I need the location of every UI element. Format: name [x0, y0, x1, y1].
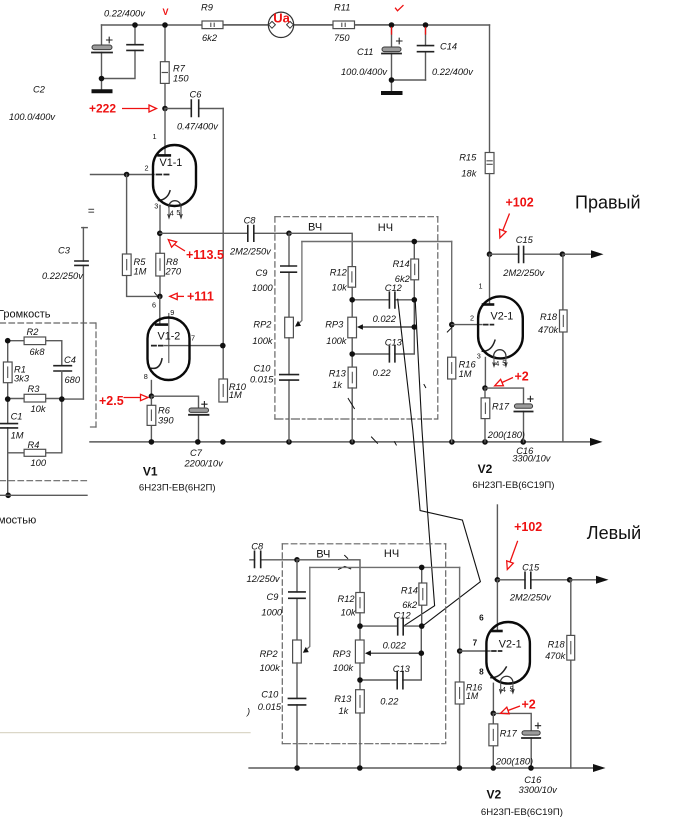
svg-text:C12: C12 [394, 610, 412, 620]
svg-text:C14: C14 [440, 42, 457, 52]
capacitor C9 [281, 233, 297, 317]
wire output arrow left [570, 579, 596, 581]
svg-text:+222: +222 [89, 102, 116, 116]
svg-text:1000: 1000 [261, 607, 283, 617]
red arrow +222 [122, 108, 149, 110]
svg-text:2200/10v: 2200/10v [184, 459, 225, 469]
capacitor C12 [352, 292, 414, 308]
junction C11/rail [389, 22, 395, 28]
junction R3/C4 [59, 396, 65, 402]
node output right [560, 251, 566, 257]
junction C2 bottom [99, 76, 105, 82]
wire B+ rail drop to R15 [489, 25, 491, 153]
wire B+ top rail [102, 24, 490, 26]
red arrow +2 top [502, 378, 513, 383]
svg-text:C7: C7 [190, 448, 203, 458]
resistor R18 [560, 254, 568, 441]
svg-text:RP2: RP2 [253, 320, 272, 330]
faint erased rail line [0, 732, 250, 734]
resistor R12 left [356, 593, 365, 641]
node V2 grid [449, 322, 455, 328]
svg-text:C10: C10 [253, 364, 271, 374]
resistor R15 [485, 153, 494, 255]
svg-text:6k8: 6k8 [30, 347, 46, 357]
wire NCh bus left [310, 566, 460, 568]
svg-text:R7: R7 [173, 64, 186, 74]
svg-text:3300/10v: 3300/10v [512, 454, 552, 464]
junction bottom wire [5, 493, 11, 499]
resistor R17 [481, 388, 490, 442]
wire V2-1 grid wire left [460, 650, 490, 652]
svg-text:7: 7 [473, 639, 478, 648]
svg-text:+2.5: +2.5 [99, 394, 124, 408]
node +222 [162, 106, 168, 112]
resistor R12 [348, 267, 356, 318]
svg-text:НЧ: НЧ [384, 548, 399, 560]
svg-text:1M: 1M [459, 369, 472, 379]
svg-text:2M2/250v: 2M2/250v [229, 246, 272, 256]
svg-text:RP2: RP2 [260, 649, 279, 659]
junction R10/ground rail [220, 439, 226, 445]
svg-text:6Н23П-ЕВ(6С19П): 6Н23П-ЕВ(6С19П) [481, 807, 563, 818]
resistor R3 [8, 394, 84, 402]
svg-text:1k: 1k [332, 380, 343, 390]
svg-text:R18: R18 [548, 640, 566, 650]
svg-text:0.47/400v: 0.47/400v [177, 122, 219, 132]
svg-text:C4: C4 [64, 355, 76, 365]
svg-text:4: 4 [502, 685, 506, 694]
freehand link line L2 [404, 302, 435, 626]
junction C16/ground rail [520, 439, 526, 445]
resistor R5 [122, 175, 160, 297]
capacitor C7 electrolytic [151, 396, 208, 442]
svg-text:Громкость: Громкость [0, 308, 51, 320]
svg-text:+111: +111 [187, 289, 214, 303]
svg-text:10k: 10k [341, 607, 357, 617]
red arrow +102 bottom [510, 541, 518, 562]
resistor R14 left [419, 567, 427, 626]
svg-text:R17: R17 [500, 728, 518, 738]
svg-text:200(180): 200(180) [487, 430, 525, 440]
svg-text:5: 5 [176, 208, 180, 217]
svg-text:C8: C8 [251, 542, 264, 552]
svg-text:+102: +102 [514, 520, 542, 534]
capacitor C15 left [497, 572, 569, 588]
svg-text:5: 5 [502, 359, 506, 368]
svg-text:V2-1: V2-1 [499, 639, 522, 651]
junction R16/ground rail [449, 439, 455, 445]
svg-text:4: 4 [170, 209, 174, 218]
svg-text:6Н23П-ЕВ(6Н2П): 6Н23П-ЕВ(6Н2П) [139, 483, 216, 494]
capacitor C10 left [288, 663, 305, 768]
wire volume network left column [7, 341, 9, 496]
svg-text:2: 2 [470, 314, 474, 323]
svg-text:ВЧ: ВЧ [308, 222, 322, 234]
svg-text:0.22: 0.22 [373, 368, 392, 378]
svg-text:6: 6 [479, 613, 484, 622]
potentiometer RP2 [285, 317, 294, 338]
svg-text:3: 3 [154, 201, 158, 210]
break marks [89, 209, 94, 212]
resistor R10 [219, 379, 228, 402]
capacitor C11 electrolytic [382, 25, 426, 91]
node +102 left [495, 577, 501, 583]
junction C10/rail left [294, 765, 300, 771]
junction R7/rail [162, 22, 168, 28]
junction R12/C12 [349, 297, 355, 303]
svg-text:V: V [163, 7, 169, 17]
svg-text:10k: 10k [332, 282, 348, 292]
svg-text:2M2/250v: 2M2/250v [502, 268, 545, 278]
wire V1-1 anode lead [164, 109, 166, 156]
svg-text:R12: R12 [330, 268, 348, 278]
wire B+ stub left channel [496, 505, 498, 580]
potentiometer RP3 left [355, 640, 364, 690]
svg-text:C11: C11 [357, 47, 373, 57]
svg-text:R12: R12 [338, 594, 356, 604]
ground below C11 [383, 91, 401, 95]
svg-text:0.015: 0.015 [250, 374, 274, 384]
svg-text:470k: 470k [545, 651, 567, 661]
svg-text:C15: C15 [516, 235, 534, 245]
wire VCh feed [289, 233, 352, 266]
junction C16/rail left [528, 765, 534, 771]
svg-text:V2-1: V2-1 [491, 311, 514, 323]
junction C11/C14 bottom [389, 77, 395, 83]
svg-text:C6: C6 [190, 90, 203, 100]
svg-text:10k: 10k [31, 404, 47, 414]
resistor R13 [348, 367, 356, 442]
ground below C2 [94, 89, 111, 93]
svg-text:0.22: 0.22 [380, 696, 399, 706]
junction R17/rail left [491, 765, 497, 771]
svg-text:+2: +2 [522, 697, 536, 711]
node V2 cathode [482, 385, 488, 391]
svg-text:2M2/250v: 2M2/250v [509, 593, 552, 603]
capacitor C2 electrolytic [92, 37, 112, 52]
wire V2-1 grid wire [452, 324, 482, 326]
svg-text:C3: C3 [58, 246, 71, 256]
resistor R8 [156, 233, 165, 296]
svg-text:R13: R13 [329, 368, 347, 378]
red arrow +2.5 [124, 397, 141, 399]
svg-text:1M: 1M [229, 390, 242, 400]
capacitor C13 [352, 300, 414, 362]
capacitor C12 left [360, 618, 422, 635]
red arrow +113.5 [175, 245, 186, 252]
resistor R17 left [489, 713, 498, 768]
svg-text:+2: +2 [515, 369, 529, 383]
svg-text:C16: C16 [524, 775, 542, 785]
svg-text:R9: R9 [201, 2, 213, 12]
capacitor C3 [75, 228, 88, 400]
svg-text:мостью: мостью [0, 515, 36, 527]
svg-text:5: 5 [510, 684, 514, 693]
capacitor C13 left [360, 626, 421, 689]
freehand ticks [155, 293, 452, 570]
wire ground rail left section [249, 767, 593, 769]
svg-text:Ua: Ua [273, 11, 290, 26]
capacitor C16 electrolytic left [493, 713, 540, 768]
junction C14/rail [423, 22, 429, 28]
node V2 grid left [457, 648, 463, 654]
node +111 [157, 294, 163, 300]
svg-text:R14: R14 [401, 586, 418, 596]
wire C6 to R10 column [222, 109, 224, 380]
svg-text:100k: 100k [260, 663, 282, 673]
node C9 top [286, 231, 292, 237]
svg-text:R4: R4 [28, 440, 40, 450]
svg-text:1: 1 [153, 132, 157, 141]
rail output arrow left [593, 764, 606, 772]
svg-text:18k: 18k [461, 169, 477, 179]
svg-text:100: 100 [31, 458, 47, 468]
potentiometer RP3 [348, 317, 357, 367]
capacitor C14 [418, 25, 434, 80]
wire RP2 wiper feed left [305, 567, 310, 650]
svg-text:6Н23П-ЕВ(6С19П): 6Н23П-ЕВ(6С19П) [472, 480, 554, 491]
svg-text:V1: V1 [143, 465, 158, 479]
svg-text:R14: R14 [393, 259, 410, 269]
svg-text:1: 1 [479, 282, 483, 291]
svg-text:1M: 1M [11, 431, 24, 441]
svg-text:4: 4 [495, 359, 499, 368]
svg-text:750: 750 [334, 33, 350, 43]
junction R1/R3 [5, 396, 11, 402]
junction C10/ground rail [286, 439, 292, 445]
svg-text:3k3: 3k3 [14, 374, 30, 384]
svg-text:0.22/250v: 0.22/250v [42, 271, 84, 281]
svg-text:ВЧ: ВЧ [316, 549, 330, 561]
svg-text:8: 8 [479, 668, 484, 677]
svg-text:470k: 470k [538, 325, 560, 335]
svg-text:C12: C12 [385, 283, 403, 293]
svg-text:R15: R15 [459, 153, 477, 163]
svg-text:+102: +102 [506, 195, 534, 209]
capacitor C8 left [250, 551, 297, 567]
capacitor C16 electrolytic [485, 388, 533, 442]
svg-text:C10: C10 [261, 690, 279, 700]
tone box right channel dashed [275, 217, 438, 419]
node +102 [487, 251, 493, 257]
capacitor 0.22/400v top-left [127, 45, 143, 51]
svg-text:1000: 1000 [252, 283, 274, 293]
node output left [567, 577, 573, 583]
svg-text:RP3: RP3 [325, 320, 344, 330]
node V2 cathode left [491, 711, 497, 717]
svg-text:R17: R17 [492, 402, 510, 412]
junction R13/rail left [357, 765, 363, 771]
svg-text:3300/10v: 3300/10v [519, 785, 559, 795]
svg-text:R11: R11 [334, 2, 350, 12]
svg-text:100k: 100k [326, 336, 348, 346]
junction R17/ground rail [482, 439, 488, 445]
resistor R6 [147, 396, 156, 442]
junction RP3/C13 [349, 351, 355, 357]
svg-text:7: 7 [191, 334, 195, 343]
wire stub bottom-left [0, 494, 87, 496]
svg-text:0.22/400v: 0.22/400v [104, 9, 146, 19]
svg-text:R16: R16 [459, 359, 477, 369]
junction R13/ground rail [349, 439, 355, 445]
svg-text:+113.5: +113.5 [186, 248, 224, 262]
tone box left channel dashed [282, 544, 445, 744]
junction 0.22cap/rail [132, 22, 138, 28]
wire V2-1 anode lead [489, 254, 491, 304]
wire V2-1 anode lead left [496, 580, 498, 631]
node C9 top left [294, 557, 300, 563]
svg-text:C13: C13 [393, 664, 411, 674]
svg-text:1M: 1M [134, 266, 147, 276]
svg-text:0.015: 0.015 [258, 702, 282, 712]
svg-text:R18: R18 [540, 312, 558, 322]
wire V2 grid feed left [459, 567, 461, 768]
svg-text:6: 6 [152, 300, 156, 309]
freehand link line L1 [398, 299, 481, 626]
svg-text:Правый: Правый [575, 193, 641, 213]
resistor R18 left [567, 580, 575, 768]
wire V1-2 anode lead [159, 296, 161, 324]
svg-text:V2: V2 [478, 462, 493, 476]
svg-text:390: 390 [158, 415, 174, 425]
svg-text:R13: R13 [334, 694, 352, 704]
svg-text:C1: C1 [11, 412, 23, 422]
resistor R7 [160, 25, 169, 109]
svg-text:C13: C13 [385, 337, 403, 347]
capacitor C15 [490, 246, 563, 262]
node V1-2 cathode [149, 393, 155, 399]
svg-text:C15: C15 [522, 563, 540, 573]
svg-text:V1-2: V1-2 [158, 330, 181, 342]
junction C7/ground rail [195, 439, 201, 445]
svg-text:100.0/400v: 100.0/400v [341, 67, 388, 77]
resistor R14 [411, 242, 419, 300]
resistor R1 [3, 362, 12, 383]
svg-text:9: 9 [170, 308, 174, 317]
svg-text:R6: R6 [158, 405, 171, 415]
svg-text:150: 150 [173, 74, 189, 84]
wire V1-1 grid wire [91, 174, 155, 176]
volume control dashed box [0, 323, 96, 481]
junction R14/C12 left [419, 623, 425, 629]
capacitor C10 [280, 338, 299, 442]
svg-text:0.022: 0.022 [383, 640, 407, 650]
red probe marks on rail [392, 6, 426, 35]
triode V2-1 right [478, 296, 523, 388]
wire VCh feed left [297, 560, 360, 593]
svg-text:0.22/400v: 0.22/400v [432, 67, 474, 77]
wire RP2 wiper feed [297, 242, 302, 325]
capacitor C4 [54, 366, 71, 399]
junction R6/ground rail [149, 439, 155, 445]
capacitor C6 [165, 100, 223, 117]
wire V2 grid feed [451, 242, 453, 442]
junction R14 top [412, 239, 418, 245]
svg-text:C9: C9 [256, 268, 268, 278]
svg-text:V1-1: V1-1 [160, 157, 183, 169]
red arrow +2 bottom [508, 706, 520, 711]
svg-text:C9: C9 [267, 592, 279, 602]
junction RP3 wiper node left [419, 650, 425, 656]
svg-text:3: 3 [477, 351, 481, 360]
resistor R9 [202, 21, 268, 29]
triode V1-2 [148, 314, 223, 397]
svg-text:RP3: RP3 [333, 649, 352, 659]
node V1-2 grid [220, 343, 226, 349]
potentiometer RP2 left [293, 640, 302, 663]
svg-text:270: 270 [165, 267, 182, 277]
node grid/R5 [124, 172, 130, 178]
capacitor C8 [160, 226, 289, 242]
svg-text:V2: V2 [487, 788, 502, 802]
resistor R16 [448, 357, 456, 379]
resistor R2 [8, 337, 62, 366]
wire RP3 wiper [361, 326, 414, 328]
red arrow +111 [177, 295, 184, 297]
resistor R4 [8, 399, 62, 456]
junction R16/rail left [457, 765, 463, 771]
junction R14/C12 [412, 297, 418, 303]
svg-text:R3: R3 [28, 384, 41, 394]
lamp/meter Ua [268, 12, 333, 37]
svg-text:1M: 1M [466, 691, 479, 701]
wire C2 branch [102, 25, 136, 89]
wire ground rail right section [90, 441, 591, 443]
svg-text:6k2: 6k2 [202, 33, 218, 43]
svg-text:R8: R8 [166, 257, 179, 267]
svg-text:НЧ: НЧ [378, 222, 393, 234]
svg-text:200(180): 200(180) [495, 757, 533, 767]
wire output arrow [562, 253, 591, 255]
svg-text:R2: R2 [27, 327, 40, 337]
svg-text:): ) [246, 707, 250, 717]
svg-text:100k: 100k [252, 336, 274, 346]
capacitor C9 left [289, 560, 305, 640]
svg-text:100.0/400v: 100.0/400v [9, 112, 56, 122]
junction R2/R1 [5, 338, 11, 344]
svg-text:2: 2 [145, 163, 149, 172]
svg-text:C2: C2 [33, 85, 46, 95]
svg-text:12/250v: 12/250v [247, 574, 281, 584]
svg-text:100k: 100k [333, 663, 355, 673]
wire RP3 wiper left [369, 652, 421, 654]
svg-text:1k: 1k [339, 706, 350, 716]
svg-text:C8: C8 [244, 215, 257, 225]
svg-text:Левый: Левый [587, 523, 641, 543]
svg-text:680: 680 [65, 375, 81, 385]
node V1-1 cathode [157, 231, 163, 237]
triode V2-1 left [486, 622, 530, 713]
resistor R16 left [455, 682, 464, 704]
svg-text:0.022: 0.022 [373, 314, 397, 324]
resistor R11 [333, 21, 391, 29]
triode V1-1 [153, 145, 196, 233]
red arrow +102 top [503, 214, 510, 231]
wire NCh bus [302, 241, 452, 243]
junction RP3 wiper node [412, 324, 418, 330]
resistor R13 left [356, 690, 365, 768]
rail output arrow [590, 438, 603, 446]
svg-text:6k2: 6k2 [402, 600, 418, 610]
capacitor C1 [0, 424, 17, 428]
junction R12/C12 left [357, 623, 363, 629]
svg-text:8: 8 [144, 372, 148, 381]
junction RP3/C13 left [357, 677, 363, 683]
junction R14 top left [419, 565, 425, 571]
